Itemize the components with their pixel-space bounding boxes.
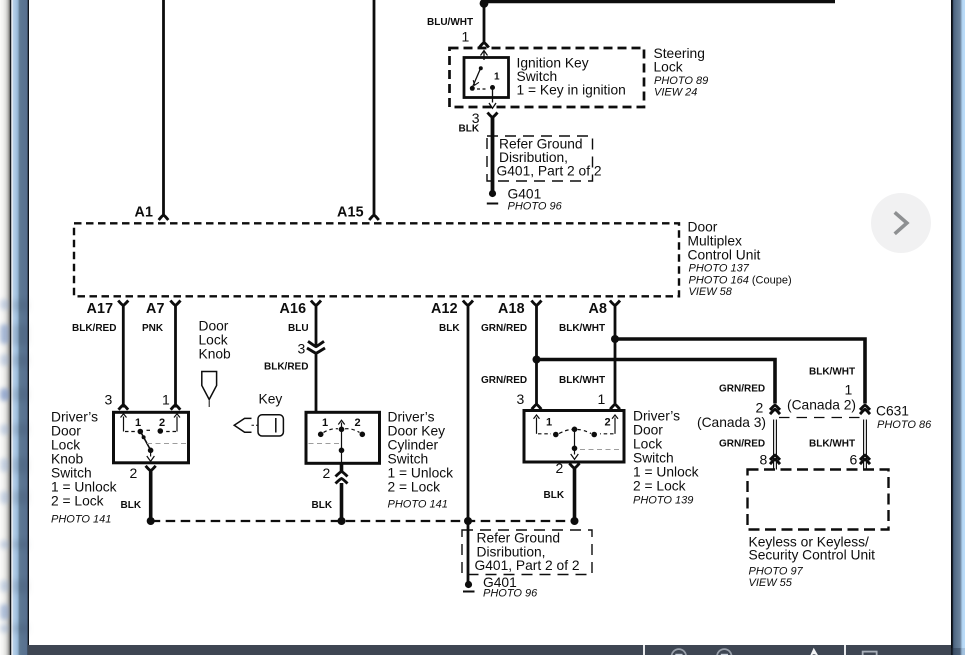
svg-text:Knob: Knob	[51, 452, 84, 467]
svg-text:A1: A1	[135, 205, 154, 221]
svg-text:1: 1	[546, 417, 552, 429]
svg-text:PHOTO 86: PHOTO 86	[877, 419, 932, 431]
svg-text:A7: A7	[146, 301, 165, 317]
svg-text:VIEW 58: VIEW 58	[689, 286, 733, 298]
svg-text:(Canada 2): (Canada 2)	[787, 398, 856, 413]
svg-text:BLK/WHT: BLK/WHT	[559, 375, 605, 386]
svg-text:PHOTO 97: PHOTO 97	[749, 566, 804, 578]
svg-text:BLK/WHT: BLK/WHT	[809, 367, 855, 378]
svg-text:Control Unit: Control Unit	[688, 248, 761, 263]
svg-text:PNK: PNK	[142, 323, 164, 334]
svg-text:BLK: BLK	[439, 323, 460, 334]
svg-text:PHOTO 141: PHOTO 141	[51, 514, 111, 526]
svg-text:1 = Unlock: 1 = Unlock	[51, 480, 117, 495]
svg-text:Key: Key	[259, 392, 283, 407]
svg-text:A16: A16	[280, 301, 307, 317]
svg-text:Door: Door	[633, 423, 663, 438]
svg-text:Switch: Switch	[633, 451, 674, 466]
svg-text:BLU: BLU	[288, 323, 309, 334]
svg-text:G401, Part 2 of 2: G401, Part 2 of 2	[475, 558, 580, 573]
svg-text:Cylinder: Cylinder	[388, 438, 439, 453]
svg-text:2: 2	[130, 465, 138, 481]
svg-text:Multiplex: Multiplex	[688, 234, 743, 249]
svg-text:Driver’s: Driver’s	[388, 410, 435, 425]
svg-text:GRN/RED: GRN/RED	[719, 384, 765, 395]
svg-text:BLK/RED: BLK/RED	[264, 362, 308, 373]
svg-text:PHOTO 164 (Coupe): PHOTO 164 (Coupe)	[689, 275, 792, 287]
svg-text:BLU/WHT: BLU/WHT	[427, 17, 473, 28]
svg-text:PHOTO 96: PHOTO 96	[483, 588, 538, 600]
svg-text:A18: A18	[498, 301, 525, 317]
svg-text:2: 2	[159, 417, 165, 429]
svg-text:3: 3	[517, 391, 525, 407]
svg-text:Lock: Lock	[654, 60, 683, 75]
svg-text:A12: A12	[431, 301, 458, 317]
svg-text:Lock: Lock	[199, 333, 228, 348]
svg-text:2 = Lock: 2 = Lock	[51, 494, 104, 509]
svg-text:BLK/RED: BLK/RED	[72, 323, 116, 334]
svg-text:Switch: Switch	[388, 452, 429, 467]
svg-text:Driver’s: Driver’s	[633, 409, 680, 424]
svg-text:(Canada 3): (Canada 3)	[697, 415, 766, 430]
svg-text:A8: A8	[589, 301, 608, 317]
svg-text:PHOTO 139: PHOTO 139	[633, 495, 693, 507]
svg-text:2: 2	[556, 460, 564, 476]
svg-text:2: 2	[323, 465, 331, 481]
svg-text:PHOTO 137: PHOTO 137	[689, 263, 750, 275]
svg-text:1 = Key in ignition: 1 = Key in ignition	[517, 83, 626, 98]
svg-text:1: 1	[462, 29, 470, 45]
svg-text:1 = Unlock: 1 = Unlock	[388, 466, 454, 481]
svg-text:2: 2	[605, 417, 611, 429]
svg-text:2 = Lock: 2 = Lock	[633, 479, 686, 494]
svg-text:Lock: Lock	[51, 438, 80, 453]
svg-text:1: 1	[322, 417, 328, 429]
svg-text:Switch: Switch	[51, 466, 92, 481]
svg-text:VIEW 24: VIEW 24	[654, 87, 697, 99]
svg-text:Door: Door	[199, 319, 229, 334]
svg-text:BLK/WHT: BLK/WHT	[809, 439, 855, 450]
svg-text:1: 1	[845, 382, 853, 398]
svg-text:VIEW 55: VIEW 55	[749, 577, 793, 589]
svg-text:GRN/RED: GRN/RED	[481, 323, 527, 334]
svg-text:BLK: BLK	[121, 500, 142, 511]
svg-text:3: 3	[472, 110, 480, 126]
svg-text:2: 2	[756, 400, 764, 416]
svg-text:C631: C631	[876, 404, 909, 419]
svg-text:8: 8	[760, 452, 768, 468]
svg-text:3: 3	[298, 341, 306, 357]
svg-text:Door Key: Door Key	[388, 424, 446, 439]
svg-text:1: 1	[494, 72, 500, 83]
svg-text:1: 1	[135, 417, 141, 429]
svg-text:2 = Lock: 2 = Lock	[388, 480, 441, 495]
svg-text:PHOTO 89: PHOTO 89	[654, 75, 708, 87]
svg-text:G401, Part 2 of 2: G401, Part 2 of 2	[497, 164, 602, 179]
svg-text:A17: A17	[87, 301, 114, 317]
svg-text:2: 2	[355, 417, 361, 429]
svg-text:Door: Door	[688, 220, 718, 235]
svg-text:Refer Ground: Refer Ground	[477, 531, 561, 546]
svg-text:1 = Unlock: 1 = Unlock	[633, 465, 699, 480]
svg-text:A15: A15	[337, 205, 364, 221]
svg-text:BLK: BLK	[544, 490, 565, 501]
svg-text:3: 3	[105, 392, 113, 408]
svg-text:Security Control Unit: Security Control Unit	[749, 548, 876, 563]
svg-text:1: 1	[598, 391, 606, 407]
svg-text:GRN/RED: GRN/RED	[481, 375, 527, 386]
svg-text:6: 6	[850, 452, 858, 468]
svg-text:GRN/RED: GRN/RED	[719, 439, 765, 450]
svg-text:BLK: BLK	[312, 500, 333, 511]
svg-text:1: 1	[162, 392, 170, 408]
svg-text:PHOTO 96: PHOTO 96	[508, 201, 563, 213]
svg-text:Door: Door	[51, 424, 81, 439]
svg-text:G401: G401	[508, 187, 542, 202]
svg-text:BLK/WHT: BLK/WHT	[559, 323, 605, 334]
svg-text:PHOTO 141: PHOTO 141	[388, 499, 448, 511]
svg-text:Driver’s: Driver’s	[51, 410, 98, 425]
svg-text:Knob: Knob	[199, 347, 232, 362]
svg-text:Lock: Lock	[633, 437, 662, 452]
